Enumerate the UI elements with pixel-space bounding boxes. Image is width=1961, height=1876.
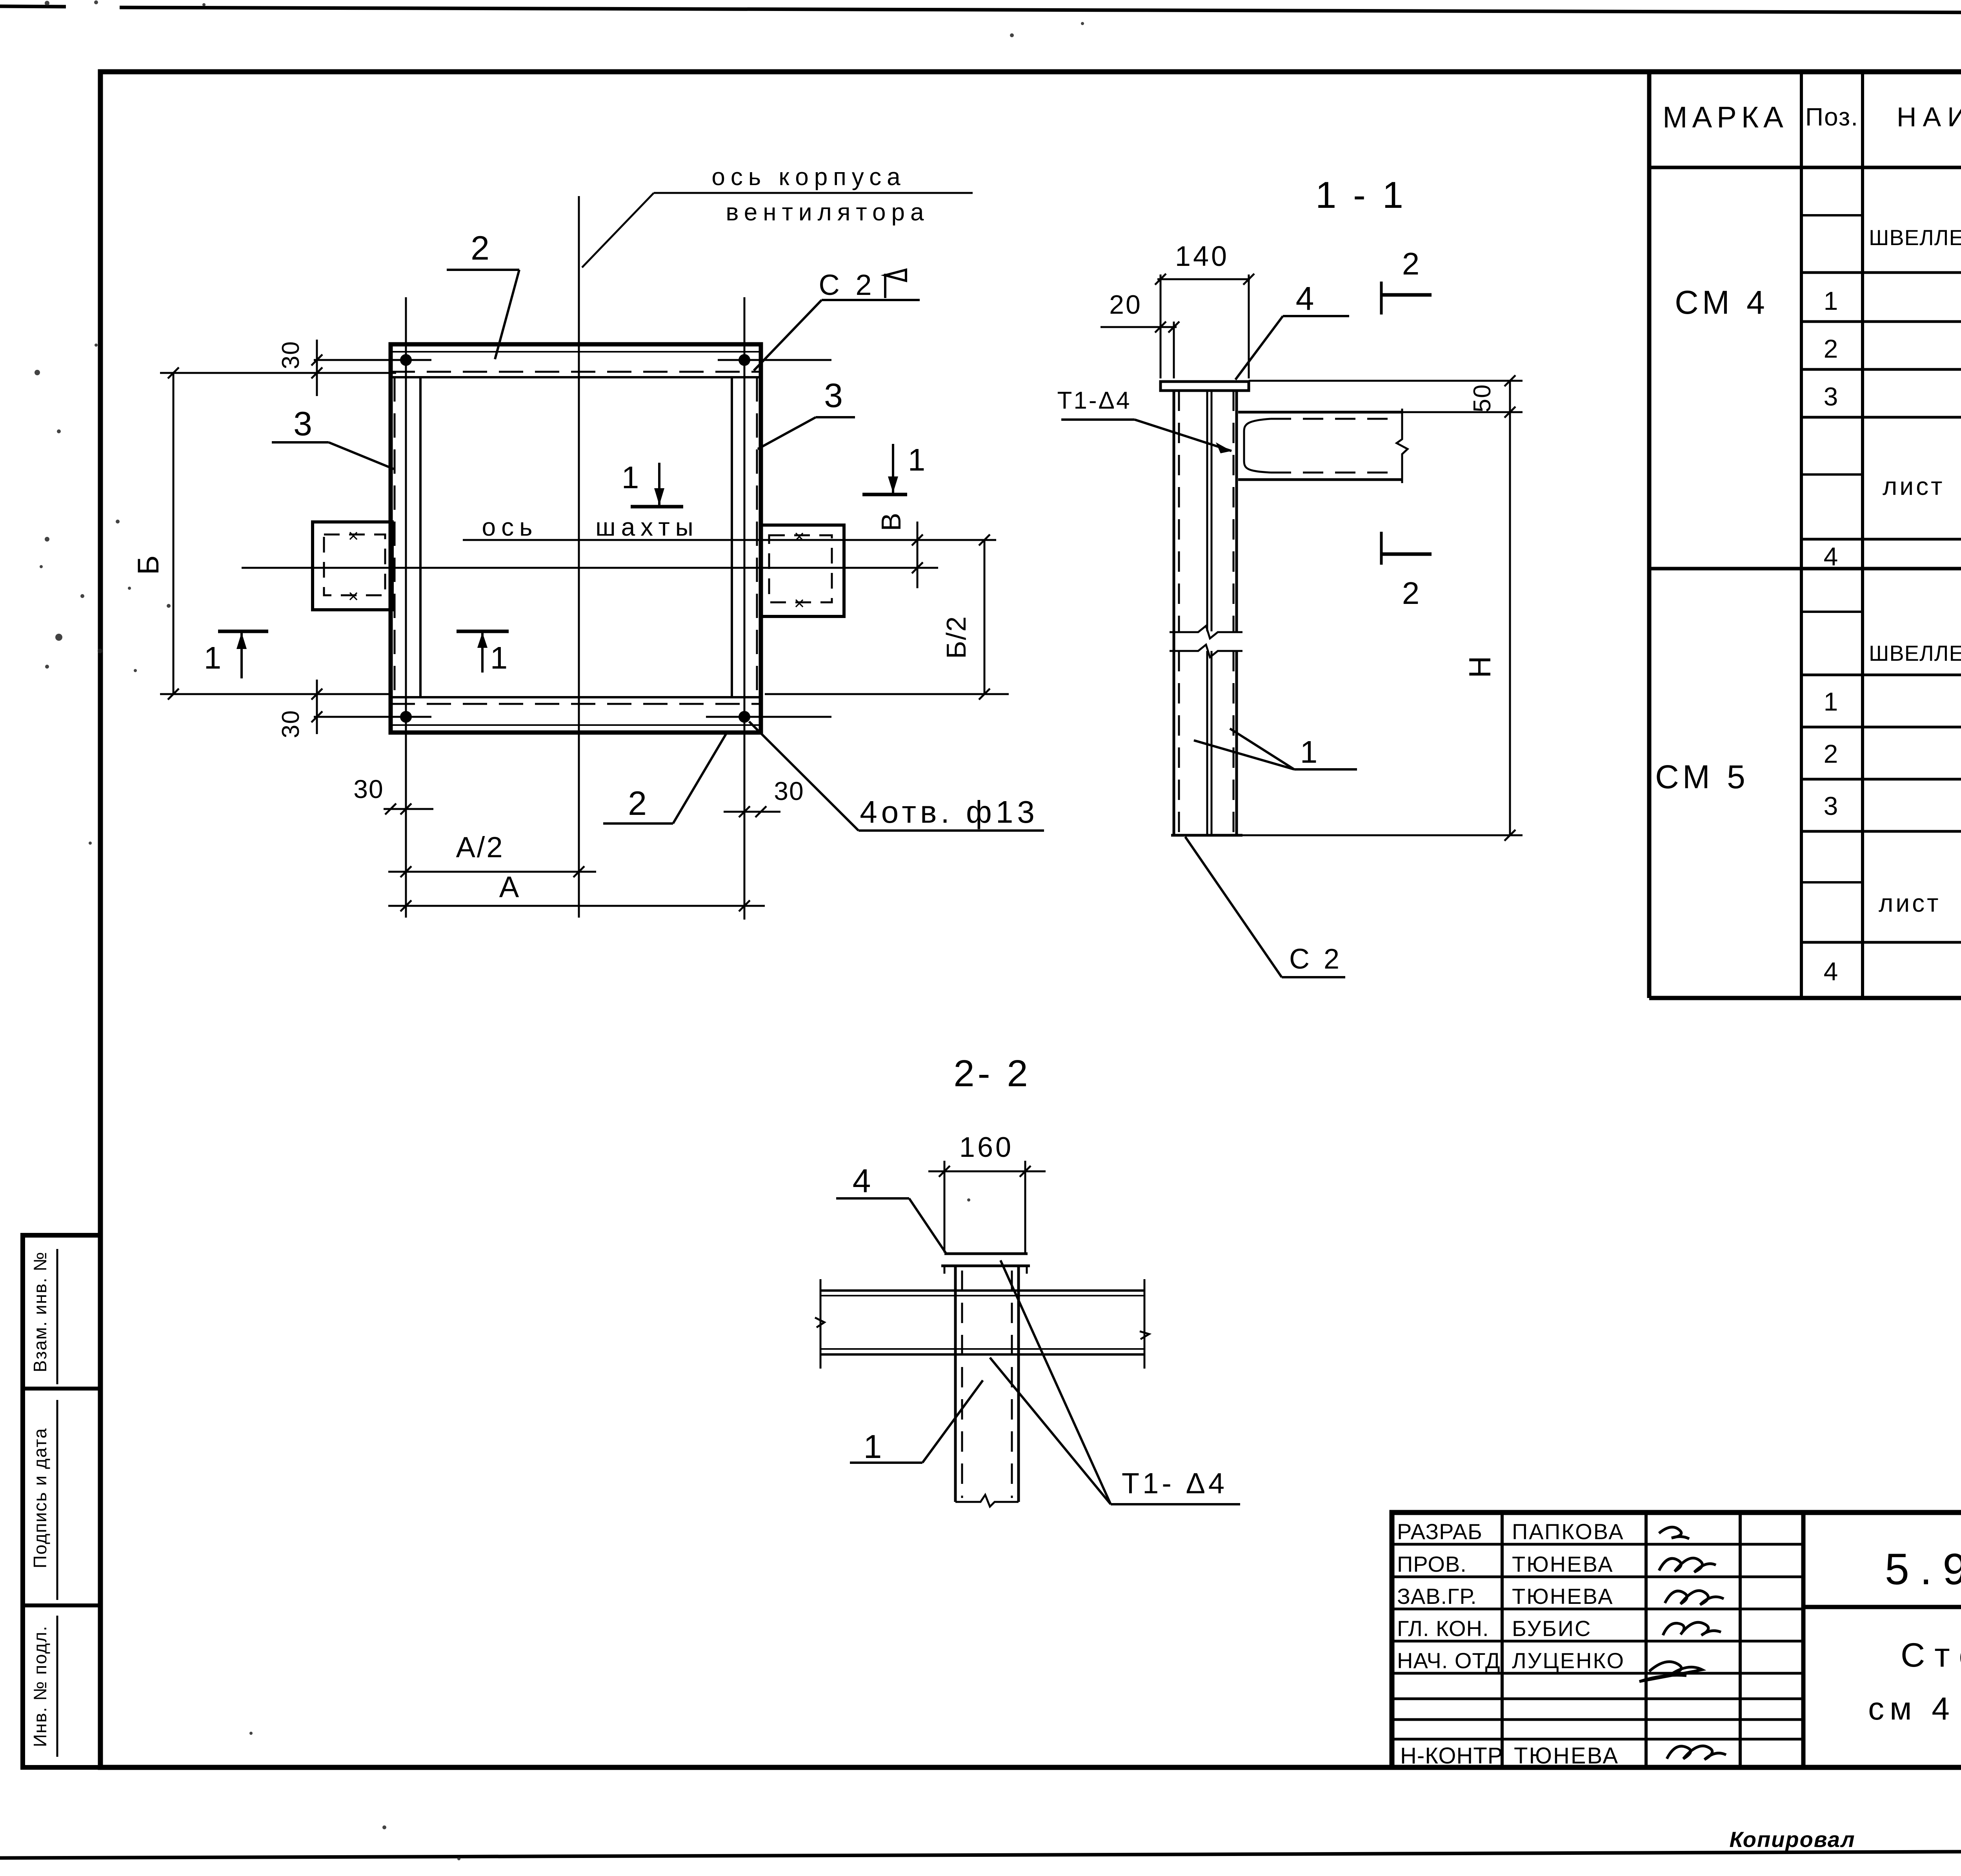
svg-text:1 - 1: 1 - 1 [1315,174,1406,216]
title block main divider [1801,1512,1806,1767]
section 1-1 dimension 20 [1101,326,1177,328]
stamp divider line 1 [23,1387,100,1391]
svg-text:1: 1 [908,442,928,477]
svg-text:30: 30 [353,774,384,803]
plan view: left channel pos.3 inner flange line [419,377,422,697]
dimension 30 bottom edge left [384,808,433,810]
section mark 1 bottom inside [457,630,509,633]
svg-text:лист: лист [1883,472,1945,500]
svg-text:А/2: А/2 [456,831,504,863]
section 2-2 crossing rail channel flange lines [820,1289,1144,1292]
svg-text:Т1- Δ4: Т1- Δ4 [1122,1467,1228,1500]
parts table CM4 row lines [1801,214,1863,216]
svg-text:30: 30 [774,776,804,805]
svg-text:ТЮНЕВА: ТЮНЕВА [1512,1584,1614,1609]
parts table outer border [1647,72,1652,998]
svg-text:Т1-Δ4: Т1-Δ4 [1057,387,1131,414]
plan view: right channel pos.3 inner flange line [731,377,733,697]
svg-text:ось корпуса: ось корпуса [711,164,906,191]
dimension 30 bottom-left [316,680,318,734]
dimension 30 bottom edge right [724,811,780,813]
title block signature grid [1392,1543,1803,1546]
svg-text:НАИМЕНОВАНИЕ: НАИМЕНОВАНИЕ [1897,102,1961,132]
stamp cell label podpis i data [56,1400,58,1600]
svg-text:5.904-56.5-12: 5.904-56.5-12 [1885,1545,1961,1594]
svg-text:Подпись и дата: Подпись и дата [30,1428,50,1569]
svg-text:РАЗРАБ: РАЗРАБ [1397,1519,1483,1544]
svg-text:3: 3 [293,405,315,443]
svg-text:×: × [348,525,361,546]
svg-text:Инв. № подл.: Инв. № подл. [30,1625,50,1747]
section 1-1 column base line [1171,834,1242,837]
svg-text:НАЧ. ОТД: НАЧ. ОТД [1397,1648,1501,1673]
plan view: left channel pos.3 hidden weld dashed line [394,377,396,697]
svg-text:4: 4 [1824,957,1841,986]
plan view: bolt hole bottom-right [739,711,750,723]
svg-text:БУБИС: БУБИС [1512,1616,1592,1641]
svg-text:см 4 ; см 5: см 4 ; см 5 [1868,1691,1961,1727]
dimension B/2 right [984,540,986,694]
page bottom scan line [0,1840,1961,1858]
svg-text:3: 3 [1824,791,1841,820]
svg-text:50: 50 [1469,384,1496,413]
svg-text:×: × [348,586,361,606]
svg-text:2: 2 [1402,576,1422,611]
stamp cell label inv no podl [56,1616,58,1757]
svg-text:1: 1 [1300,734,1320,769]
title block doc number cell line [1803,1605,1961,1609]
svg-text:140: 140 [1175,241,1229,272]
svg-text:Н-КОНТР: Н-КОНТР [1400,1743,1503,1769]
svg-text:ось: ось [482,513,538,541]
plan view: bottom rail channel pos.2 web lines [391,724,761,726]
svg-text:ГЛ. КОН.: ГЛ. КОН. [1397,1616,1489,1641]
dimension B left [173,373,175,694]
svg-text:1: 1 [864,1428,884,1465]
plan view: square frame outline [391,344,761,733]
svg-text:Поз.: Поз. [1805,103,1859,131]
svg-text:ТЮНЕВА: ТЮНЕВА [1514,1743,1619,1769]
svg-text:ШВЕЛЛЕР: ШВЕЛЛЕР [1869,641,1961,665]
svg-text:2- 2: 2- 2 [953,1053,1031,1094]
parts table CM5 row lines [1801,611,1863,613]
svg-text:30: 30 [277,710,304,738]
section 2-2 dimension 160 [928,1171,1046,1172]
plan view: left tab plate pos.4 [313,522,392,610]
svg-text:2: 2 [1402,246,1422,281]
svg-text:ТЮНЕВА: ТЮНЕВА [1512,1552,1614,1576]
plan view: shaft axis horizontal line [463,539,996,541]
page top scan line [0,6,66,7]
section 1-1 horizontal channel pos.3 [1238,411,1402,414]
plan view: bolt hole top-left with axis lines [400,354,412,366]
svg-text:4: 4 [1824,542,1841,571]
svg-text:1: 1 [204,640,224,675]
section 1-1 column center web double line [1206,391,1208,631]
svg-text:СМ 4: СМ 4 [1675,284,1769,321]
plan view: right channel pos.3 hidden weld dashed line [756,377,758,697]
stamp divider line 2 [23,1603,100,1607]
svg-text:В: В [876,512,906,531]
section mark 1 right outside [862,493,907,496]
svg-text:1: 1 [622,460,642,495]
svg-text:4: 4 [1296,280,1317,317]
section 2-2 rail break marks [820,1279,822,1369]
svg-text:2: 2 [471,229,492,267]
svg-text:160: 160 [959,1132,1013,1163]
plan view: fan housing axis vertical centerline [578,196,580,918]
svg-text:ШВЕЛЛЕР: ШВЕЛЛЕР [1869,225,1961,250]
plan view: top rail channel pos.2 web lines [391,351,761,353]
section 1-1 column break lines [1170,626,1242,638]
svg-text:шахты: шахты [595,513,699,541]
plan view: bolt hole bottom-left [400,711,412,723]
svg-text:4отв. ф13: 4отв. ф13 [860,794,1039,829]
svg-text:Стойка: Стойка [1901,1636,1961,1674]
svg-text:4: 4 [853,1162,873,1199]
plan view: stand axis horizontal line through tabs [242,567,938,569]
svg-text:3: 3 [1824,382,1841,411]
plan view: bolt hole top-right with axis lines [739,354,750,366]
svg-text:Копировал: Копировал [1729,1827,1855,1852]
signatures squiggles [1659,1527,1689,1539]
section 1-1 column hidden flange dashed lines [1178,391,1180,631]
svg-text:лист: лист [1879,889,1941,917]
plan view: right tab plate pos.4 [761,525,844,616]
svg-text:СМ 5: СМ 5 [1655,758,1749,795]
dimension A/2 [388,871,596,873]
svg-text:1: 1 [1824,687,1841,716]
section 2-2 cap plate pos.4 [944,1252,1028,1255]
parts table header row [1649,166,1961,169]
dimension A [388,905,765,907]
svg-text:1: 1 [490,640,510,675]
parts table CM4/CM5 divider [1649,567,1961,571]
svg-text:×: × [794,593,807,613]
section 2-2 column pos.1 [954,1266,957,1502]
section 1-1 section mark 2 upper [1380,282,1383,314]
svg-text:Б: Б [132,554,165,575]
section 1-1 cap plate pos.4 [1161,382,1249,391]
svg-text:1: 1 [1824,286,1841,315]
section 1-1 dimension H and 50 [1509,381,1511,835]
section 1-1 column pos.1 outer edges [1173,391,1175,835]
svg-text:×: × [794,526,807,547]
stamp cell label vzam inv no [56,1249,58,1384]
svg-text:ЛУЦЕНКО: ЛУЦЕНКО [1512,1648,1625,1673]
svg-text:Н: Н [1463,655,1497,678]
section mark 1 bottom-left outside [218,630,268,633]
svg-text:2: 2 [1824,739,1841,768]
svg-text:Б/2: Б/2 [941,616,971,659]
svg-text:2: 2 [1824,334,1841,363]
section mark 1 top inside [631,505,683,509]
svg-text:Взам. инв. №: Взам. инв. № [30,1251,50,1372]
left margin stamp box [23,1235,100,1767]
svg-text:2: 2 [628,785,649,822]
svg-text:ПАПКОВА: ПАПКОВА [1512,1519,1624,1544]
dimension 30 top-left [316,340,318,396]
svg-text:ЗАВ.ГР.: ЗАВ.ГР. [1397,1584,1477,1609]
parts table column lines [1800,72,1803,998]
dimension V right [917,522,919,588]
svg-text:3: 3 [824,377,845,414]
svg-text:вентилятора: вентилятора [726,199,930,226]
section 1-1 channel break mark [1397,409,1408,483]
title block outer border [1392,1512,1961,1767]
svg-text:А: А [499,871,521,904]
section 1-1 dimension 140 [1157,278,1250,280]
section 1-1 section mark 2 lower [1380,532,1383,565]
svg-text:С 2: С 2 [1289,943,1343,975]
svg-text:МАРКА: МАРКА [1663,101,1788,134]
svg-text:ПРОВ.: ПРОВ. [1397,1552,1467,1576]
svg-text:С 2: С 2 [819,269,875,301]
svg-text:30: 30 [277,341,304,369]
svg-text:20: 20 [1109,290,1142,320]
